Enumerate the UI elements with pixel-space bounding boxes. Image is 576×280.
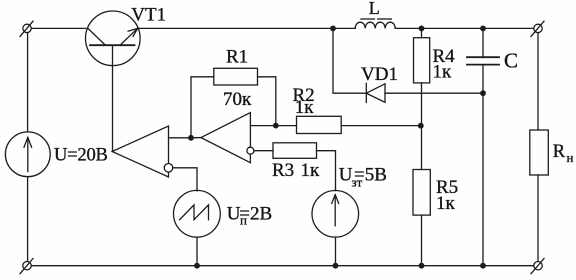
terminal top-left	[20, 21, 33, 36]
svg-text:C: C	[504, 48, 518, 72]
resistor Rn (load)	[530, 130, 549, 175]
svg-text:R1: R1	[226, 46, 248, 67]
terminal bottom-right	[531, 259, 544, 274]
wire U1 noninv input to node A	[169, 137, 192, 139]
junction dot bottom reference	[333, 263, 339, 269]
op-amp U2 (right comparator, points left)	[201, 113, 254, 163]
resistor R5	[413, 170, 430, 266]
svg-text:н: н	[567, 150, 574, 165]
label Rn	[553, 142, 574, 165]
svg-text:R: R	[553, 142, 566, 162]
svg-text:R3: R3	[272, 160, 294, 181]
svg-text:1к: 1к	[295, 97, 315, 118]
wire top rail left segment	[31, 27, 85, 29]
resistor R3	[273, 143, 317, 159]
junction dot top rail C	[480, 26, 486, 32]
junction dot bottom ground col	[480, 263, 486, 269]
svg-text:VT1: VT1	[131, 4, 166, 25]
svg-text:1к: 1к	[436, 193, 456, 214]
junction dot top rail R4	[419, 26, 425, 32]
wire U1 inv input (bubble) to sawtooth source	[173, 168, 197, 191]
diode VD1	[366, 83, 385, 102]
wire bottom rail	[31, 265, 533, 267]
junction dot top rail node A col	[330, 26, 336, 32]
resistor R1	[214, 68, 258, 85]
junction dot diode-C-ground	[480, 90, 486, 96]
label Up=2B	[227, 204, 272, 228]
capacitor C	[467, 28, 499, 265]
wire left rail lower	[27, 177, 29, 261]
wire R1 left lead	[191, 77, 214, 138]
resistor R4	[414, 28, 430, 169]
wire top rail right segment	[395, 27, 533, 29]
junction dot bottom sawtooth	[194, 263, 200, 269]
sawtooth source Up=2B	[174, 190, 221, 265]
wire right rail upper	[537, 33, 539, 130]
svg-text:L: L	[369, 0, 380, 18]
svg-text:U=20В: U=20В	[54, 145, 108, 166]
svg-text:1к: 1к	[433, 62, 453, 83]
source U=20B	[5, 132, 50, 177]
reference source Uzt=5B	[312, 191, 359, 266]
label Uzt=5B	[339, 165, 387, 190]
resistor R2	[297, 116, 342, 133]
svg-text:=5В: =5В	[354, 165, 387, 186]
terminal top-right	[531, 21, 544, 36]
wire right rail lower	[537, 175, 539, 261]
svg-text:70к: 70к	[223, 89, 252, 110]
wire left rail upper	[27, 33, 29, 132]
inductor L	[355, 19, 395, 28]
node A junction dot	[188, 135, 194, 141]
junction dot bottom R5	[419, 263, 425, 269]
wire U2 inv input (bubble) to R3	[254, 150, 273, 152]
transistor VT1	[86, 11, 141, 152]
wire U2 output to node A	[191, 137, 201, 139]
wire R3 right lead to source	[317, 151, 336, 191]
wire R1 right lead	[258, 77, 276, 126]
svg-text:VD1: VD1	[361, 64, 398, 85]
junction dot divider node	[418, 123, 424, 129]
op-amp U1 (left comparator, points left)	[112, 126, 173, 177]
svg-text:1к: 1к	[301, 160, 321, 181]
svg-text:=2В: =2В	[239, 204, 272, 225]
wire R2 to divider node	[341, 125, 421, 127]
wire node1 to diode	[333, 28, 366, 93]
terminal bottom-left	[20, 259, 33, 274]
wire top rail middle segment	[138, 27, 356, 29]
wire diode to ground column	[385, 92, 483, 94]
wire U2 noninv input to R2	[250, 125, 296, 127]
node R1-R2 junction dot	[273, 123, 279, 129]
